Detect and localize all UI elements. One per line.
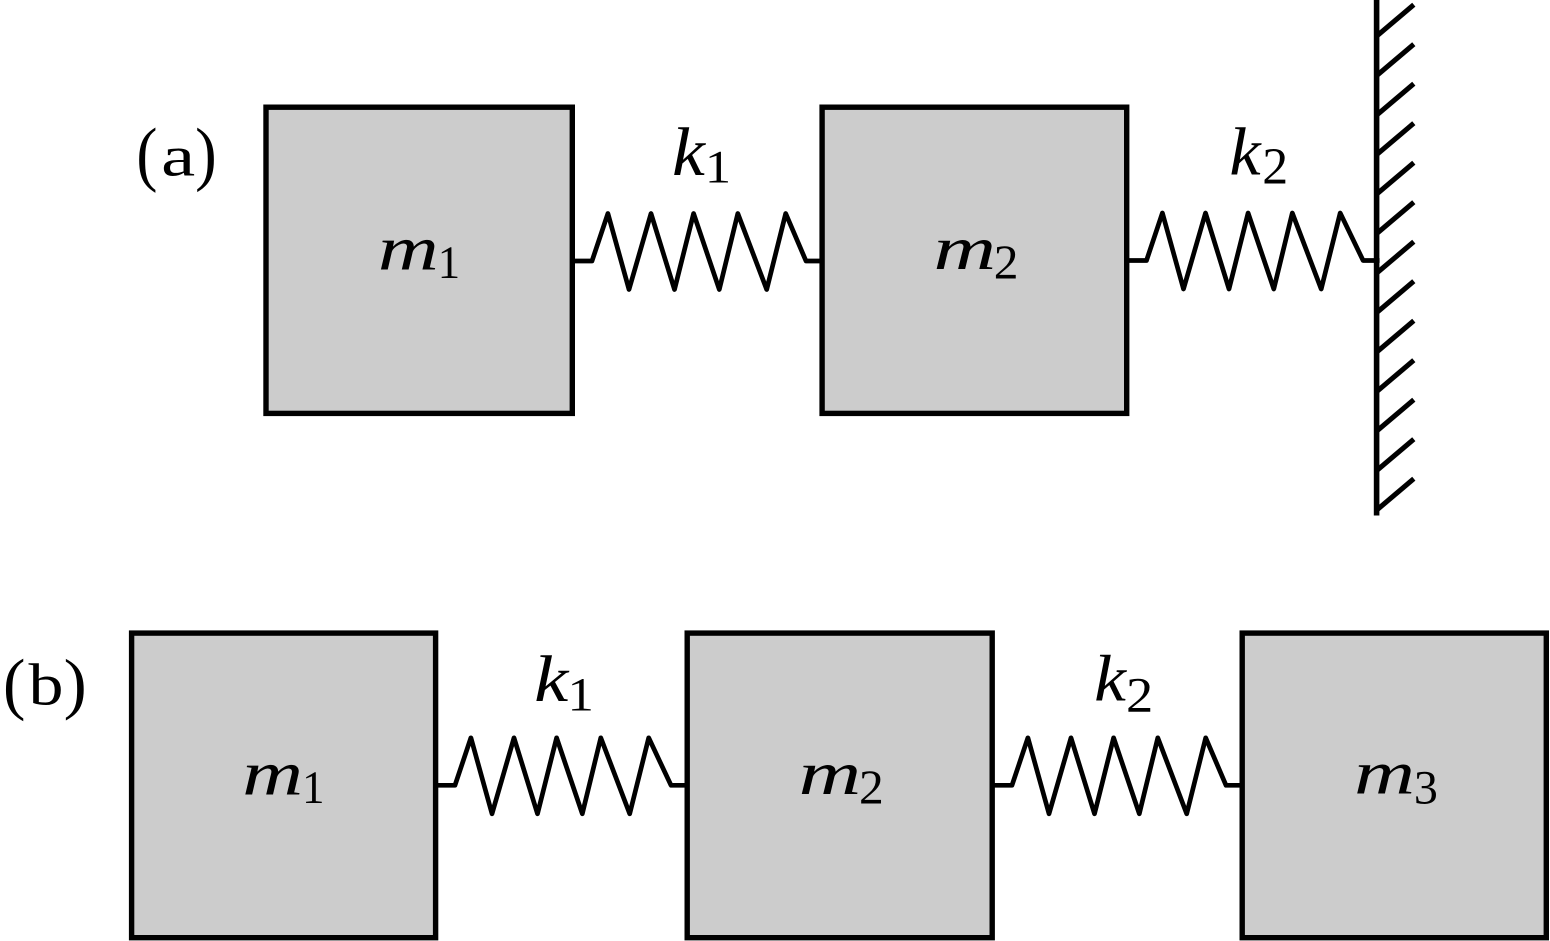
spring k2 (panel b): [992, 738, 1243, 814]
svg-text:m: m: [799, 740, 862, 808]
svg-text:1: 1: [302, 761, 324, 813]
mass m1 (panel a): [266, 107, 572, 413]
svg-text:1: 1: [705, 141, 731, 193]
wall hatch 10: [1377, 360, 1414, 392]
svg-text:(: (: [3, 645, 25, 722]
wall hatch 9: [1377, 321, 1414, 353]
spring k1 (panel a): [572, 214, 823, 290]
wall hatch 3: [1377, 84, 1414, 116]
svg-text:m: m: [378, 215, 439, 284]
wall hatch 7: [1377, 242, 1414, 274]
svg-text:k: k: [672, 115, 706, 191]
wall hatch 11: [1377, 400, 1414, 432]
svg-text:m: m: [933, 215, 996, 283]
svg-text:(: (: [136, 114, 157, 194]
mass m1 (panel b): [132, 633, 436, 938]
wall hatch 5: [1377, 163, 1414, 195]
svg-text:k: k: [1229, 114, 1262, 190]
spring k1 (panel b): [435, 738, 688, 814]
svg-text:a: a: [161, 125, 195, 189]
svg-text:k: k: [1094, 642, 1127, 714]
svg-text:): ): [195, 113, 217, 192]
svg-text:2: 2: [994, 235, 1019, 289]
mass m2 (panel a): [822, 107, 1127, 413]
wall hatch 12: [1377, 439, 1414, 471]
svg-text:b: b: [29, 652, 64, 718]
svg-text:m: m: [242, 740, 303, 809]
spring k2 (panel a): [1127, 213, 1380, 289]
wall hatch 2: [1377, 44, 1414, 75]
mass m2 (panel b): [687, 633, 992, 938]
mass m3 (panel b): [1242, 633, 1546, 938]
svg-text:2: 2: [1262, 139, 1288, 196]
wall hatch 4: [1377, 123, 1414, 155]
svg-text:2: 2: [859, 760, 884, 814]
wall hatch 1: [1377, 5, 1414, 37]
svg-text:1: 1: [438, 236, 460, 288]
svg-text:k: k: [534, 643, 569, 716]
svg-text:m: m: [1354, 739, 1415, 807]
wall hatch 6: [1377, 202, 1414, 234]
wall (panel a): [1374, 0, 1380, 516]
svg-text:1: 1: [567, 668, 593, 721]
wall hatch 13: [1377, 479, 1414, 511]
svg-text:): ): [64, 646, 87, 721]
svg-text:3: 3: [1414, 762, 1438, 815]
wall hatch 8: [1377, 281, 1414, 313]
svg-text:2: 2: [1126, 668, 1153, 723]
